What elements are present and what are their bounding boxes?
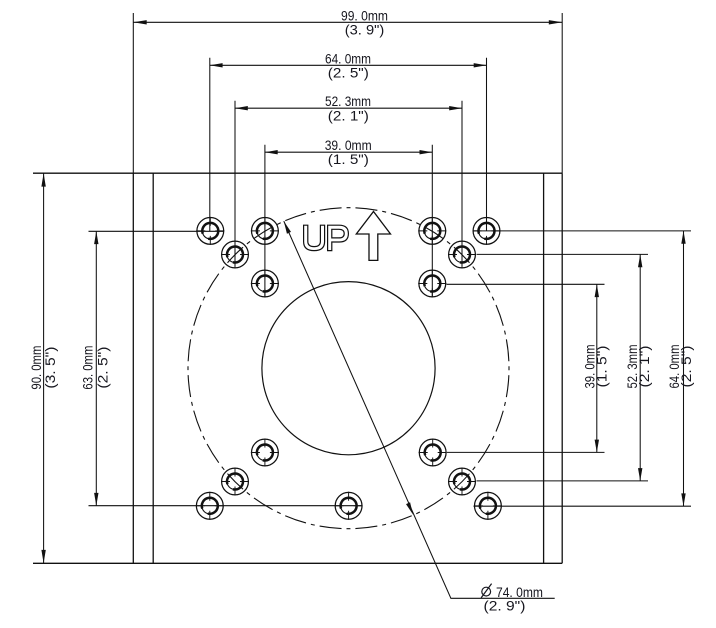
hole H10 right lower-inner	[419, 439, 447, 467]
hole H4 top-right outer	[473, 217, 501, 245]
svg-text:(1. 5"): (1. 5")	[593, 346, 609, 388]
dimension 39.0mm extension lines	[265, 145, 432, 298]
dimension 52.3mm extension lines	[235, 101, 462, 266]
dimension 64.0mm line	[210, 64, 487, 66]
diameter 74.0mm leader line	[284, 221, 555, 598]
svg-text:63. 0mm: 63. 0mm	[80, 346, 96, 390]
right dimension 64.0mm line	[683, 231, 685, 506]
hole H2 top-left inner	[251, 217, 279, 245]
svg-text:(2. 1"): (2. 1")	[328, 107, 369, 123]
hole H5 upper-left 45deg	[221, 241, 249, 269]
plate right edge	[561, 173, 563, 563]
right 52.3mm extension lines	[477, 254, 649, 481]
dimension 39.0mm line	[265, 151, 432, 153]
hole H14 bottom-center	[335, 492, 363, 520]
svg-text:(3. 5"): (3. 5")	[42, 347, 58, 389]
plate bottom edge with 90mm extension	[33, 562, 562, 564]
svg-text:(1. 5"): (1. 5")	[328, 151, 369, 167]
hole H9 left lower-inner	[251, 439, 279, 467]
hole H7 left second-row	[251, 270, 279, 298]
hole H15 bottom-right outer	[474, 492, 502, 520]
right dimension 52.3mm line	[639, 254, 641, 481]
center hole circle	[262, 282, 435, 455]
hole H1 top-left outer	[196, 217, 224, 245]
dimension 52.3mm line	[235, 107, 462, 109]
hole H8 right second-row	[418, 270, 446, 298]
dimension 63.0mm line	[95, 231, 97, 505]
right 64.0mm extension lines	[474, 231, 692, 506]
svg-text:(3. 9"): (3. 9")	[345, 21, 385, 37]
svg-text:(2. 5"): (2. 5")	[328, 64, 369, 80]
UP marking arrow outline	[356, 212, 390, 261]
right 39.0mm extension lines	[447, 284, 605, 452]
dimension 63.0mm extension lines (left)	[89, 231, 363, 505]
plate right fold line	[543, 173, 545, 563]
dimension 64.0mm extension lines	[210, 58, 487, 231]
bolt circle dia 74mm (dash-dot)	[188, 208, 509, 529]
svg-text:(2. 5"): (2. 5")	[678, 346, 694, 388]
hole H3 top-right inner	[418, 217, 446, 245]
right dimension 39.0mm line	[596, 284, 598, 452]
hole H11 lower-left 45deg	[221, 468, 249, 496]
dimension 99.0mm extension lines	[133, 13, 562, 173]
plate left fold line	[152, 173, 154, 563]
svg-text:(2. 9"): (2. 9")	[484, 598, 526, 614]
hole H12 lower-right 45deg	[448, 468, 476, 496]
plate left edge	[132, 173, 134, 563]
dimension 99.0mm line	[133, 21, 562, 23]
UP marking text	[304, 225, 349, 250]
diameter symbol	[481, 584, 492, 598]
plate top edge with 90mm extension	[33, 172, 562, 174]
hole H13 bottom-left outer	[196, 492, 224, 520]
dimension 90.0mm line (left)	[43, 173, 45, 563]
hole H6 upper-right 45deg	[448, 241, 476, 269]
svg-text:(2. 5"): (2. 5")	[94, 347, 110, 389]
svg-text:(2. 1"): (2. 1")	[636, 346, 652, 388]
